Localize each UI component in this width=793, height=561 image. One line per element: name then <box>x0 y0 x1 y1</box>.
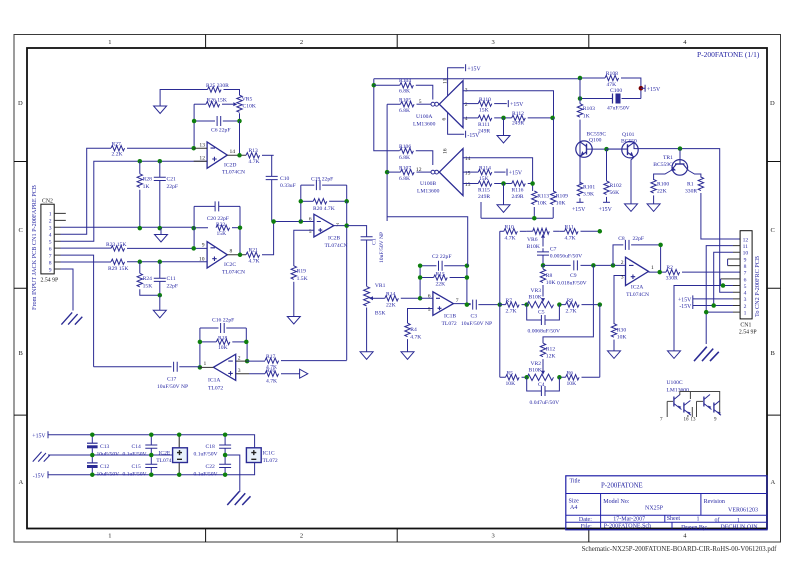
svg-text:Title: Title <box>570 479 581 485</box>
resistor R110 <box>463 97 507 114</box>
svg-text:R18: R18 <box>218 336 228 342</box>
junction <box>191 146 196 151</box>
svg-text:C15: C15 <box>132 464 142 470</box>
svg-text:10K: 10K <box>556 201 566 207</box>
svg-text:2: 2 <box>300 39 303 46</box>
resistor R114 <box>463 165 506 182</box>
wire C3 node column to R10 and R5 <box>499 231 501 377</box>
svg-text:10uF/50V NP: 10uF/50V NP <box>461 321 492 327</box>
hatch ground bottom right of power block <box>227 492 250 506</box>
junction <box>591 263 596 268</box>
junction <box>704 310 709 315</box>
resistor R15 <box>420 271 467 287</box>
svg-text:R114: R114 <box>479 165 491 171</box>
svg-text:2.54 9P: 2.54 9P <box>739 329 757 335</box>
capacitor C8 <box>613 236 661 272</box>
svg-text:14: 14 <box>230 149 236 155</box>
op-amp IC2C <box>199 242 245 276</box>
svg-text:+15V: +15V <box>599 207 613 213</box>
svg-text:TL072: TL072 <box>442 321 457 327</box>
wire node Y vertical R105 R107 <box>387 104 400 221</box>
junction <box>90 472 95 477</box>
svg-text:3: 3 <box>49 226 52 232</box>
svg-text:R20 4.7K: R20 4.7K <box>313 206 335 212</box>
junction <box>372 83 377 88</box>
svg-text:B10K: B10K <box>529 367 542 373</box>
svg-text:A: A <box>19 479 24 486</box>
svg-text:6.8K: 6.8K <box>399 176 410 182</box>
svg-text:249R: 249R <box>512 120 524 126</box>
svg-text:6: 6 <box>442 118 448 121</box>
junction <box>237 153 242 158</box>
svg-text:8: 8 <box>49 261 52 267</box>
svg-text:R104: R104 <box>399 78 411 84</box>
transistor Q100 BC559C <box>576 131 607 157</box>
resistor R16 <box>249 368 300 384</box>
svg-text:10K: 10K <box>567 381 577 387</box>
capacitor C100 polarized <box>580 88 641 112</box>
capacitor C2 <box>420 254 467 271</box>
svg-text:4: 4 <box>465 116 468 122</box>
OTA U100A <box>413 78 468 127</box>
svg-text:R109: R109 <box>556 194 568 200</box>
svg-text:5: 5 <box>744 284 747 290</box>
capacitor C15 <box>123 455 158 477</box>
resistor R9 <box>566 298 580 315</box>
svg-text:0.1uF/50V: 0.1uF/50V <box>123 471 147 477</box>
ground below R115 R116 <box>503 184 505 205</box>
svg-text:4.7K: 4.7K <box>410 334 421 340</box>
svg-text:22K: 22K <box>386 302 396 308</box>
svg-text:10uF/50V: 10uF/50V <box>97 451 120 457</box>
svg-text:IC2B: IC2B <box>328 236 340 242</box>
svg-text:22K: 22K <box>657 189 667 195</box>
svg-text:22pF: 22pF <box>167 184 179 190</box>
svg-text:A: A <box>771 479 776 486</box>
svg-text:3: 3 <box>744 297 747 303</box>
hatch ground below CN1 <box>694 347 719 361</box>
svg-text:R4: R4 <box>410 327 417 333</box>
wire CN1 pin1 to hatch ground <box>706 312 733 344</box>
resistor R100 <box>651 179 669 204</box>
svg-text:C22: C22 <box>206 464 216 470</box>
resistor R12 <box>540 343 555 360</box>
svg-text:R24: R24 <box>143 276 153 282</box>
svg-text:330R: 330R <box>666 276 678 282</box>
svg-text:R15: R15 <box>436 271 446 277</box>
svg-text:B10K: B10K <box>529 295 542 301</box>
svg-text:R112: R112 <box>512 111 524 117</box>
capacitor C6 <box>194 116 239 134</box>
svg-text:R14: R14 <box>386 292 396 298</box>
svg-text:1K: 1K <box>143 184 150 190</box>
svg-text:4.7K: 4.7K <box>565 235 576 241</box>
resistor R7 <box>506 298 520 315</box>
wire CN2 pin4 up to R27 <box>61 148 112 234</box>
svg-text:15K: 15K <box>217 231 227 237</box>
wire CN1 pin10 column to -15V net <box>714 252 733 305</box>
svg-text:6: 6 <box>428 293 431 299</box>
svg-text:VR3: VR3 <box>531 288 542 294</box>
resistor R26 <box>194 98 233 107</box>
svg-text:10K: 10K <box>546 280 556 286</box>
svg-text:+15V: +15V <box>678 297 692 303</box>
capacitor C17 <box>94 362 200 390</box>
wire Q100 base to Q101 base <box>604 147 609 152</box>
svg-text:6: 6 <box>744 277 747 283</box>
svg-text:A4: A4 <box>570 505 577 511</box>
svg-text:+15V: +15V <box>572 207 586 213</box>
svg-text:+15V: +15V <box>467 66 481 72</box>
junction <box>550 116 555 121</box>
svg-text:R13: R13 <box>249 148 259 154</box>
svg-text:2: 2 <box>465 102 468 108</box>
svg-text:12: 12 <box>416 167 422 173</box>
svg-text:R100: R100 <box>657 182 669 188</box>
svg-text:TL072: TL072 <box>263 458 278 464</box>
resistor R4 <box>405 323 422 352</box>
power +15V to CN1 pin3 <box>678 295 733 303</box>
resistor R14 <box>373 292 420 309</box>
svg-text:7: 7 <box>744 271 747 277</box>
svg-text:R28: R28 <box>143 177 153 183</box>
ground below R4 <box>401 352 414 360</box>
wire CN2 pin9 to ground <box>61 269 74 311</box>
wire CN2 pin5 up to IC2D pin12 line <box>61 161 208 241</box>
wire IC2A minus line through C9 <box>543 264 626 266</box>
resistor R109 <box>551 118 569 218</box>
svg-text:BC550: BC550 <box>621 139 637 145</box>
op-amp power box IC1C <box>246 448 278 464</box>
wire R1 to CN1 pin12 <box>701 193 740 239</box>
svg-text:2: 2 <box>744 304 747 310</box>
svg-text:2: 2 <box>238 355 241 361</box>
ground below R100 <box>647 204 660 212</box>
wire CN2 pin7 to C17 <box>61 255 94 367</box>
resistor R101 <box>577 182 595 202</box>
wire node Y to IC1B output <box>387 217 468 266</box>
svg-text:2: 2 <box>49 219 52 225</box>
svg-text:C1: C1 <box>372 238 378 245</box>
svg-text:16: 16 <box>684 418 690 423</box>
svg-text:8: 8 <box>744 264 747 270</box>
svg-text:4.7K: 4.7K <box>249 258 260 264</box>
resistor R28 <box>137 161 152 228</box>
svg-text:14: 14 <box>465 156 471 162</box>
capacitor C21 <box>154 161 178 228</box>
resistor R104 <box>374 78 433 100</box>
svg-text:4: 4 <box>744 291 747 297</box>
svg-text:R113: R113 <box>537 194 549 200</box>
junction <box>90 453 95 458</box>
svg-text:CN1: CN1 <box>740 322 751 328</box>
op-amp IC2A <box>614 257 654 324</box>
svg-text:TL074CN: TL074CN <box>626 292 649 298</box>
rail junction dots <box>90 432 95 437</box>
resistor R18 <box>200 336 246 351</box>
resistor R115 <box>463 181 512 200</box>
svg-text:0.0056uF/50V: 0.0056uF/50V <box>550 254 582 260</box>
junction <box>501 116 506 121</box>
svg-text:IC1A: IC1A <box>208 377 220 383</box>
svg-text:+15V: +15V <box>647 87 661 93</box>
junction <box>192 119 197 124</box>
svg-text:R27: R27 <box>112 141 122 147</box>
svg-text:47uF/50V: 47uF/50V <box>607 106 630 112</box>
wire U100B pin14 to R113 column <box>463 158 533 191</box>
svg-text:4.7K: 4.7K <box>505 235 516 241</box>
svg-text:B: B <box>771 350 776 357</box>
svg-text:Drawn By:: Drawn By: <box>681 525 708 531</box>
svg-text:10: 10 <box>199 256 205 262</box>
svg-text:22K: 22K <box>436 281 446 287</box>
svg-text:0.1uF/50V: 0.1uF/50V <box>123 451 147 457</box>
svg-text:C6 22pF: C6 22pF <box>211 128 230 134</box>
svg-text:Date:: Date: <box>579 517 592 523</box>
svg-text:R7: R7 <box>506 298 513 304</box>
svg-text:R103: R103 <box>583 106 595 112</box>
wire mid chain row R7 VR3 R9 <box>500 304 600 306</box>
power +15V below R102 <box>599 202 613 213</box>
wire CN1 pin9 pin8 jumper <box>727 259 729 266</box>
op-amp IC2B <box>309 214 348 249</box>
svg-text:C2 22pF: C2 22pF <box>432 254 451 260</box>
svg-text:10uF/50V NP: 10uF/50V NP <box>157 384 188 390</box>
svg-text:TL074CN: TL074CN <box>325 243 348 249</box>
svg-text:Q101: Q101 <box>622 132 635 138</box>
svg-text:10uF/50V: 10uF/50V <box>97 471 120 477</box>
junction <box>598 229 603 234</box>
resistor R105 <box>399 97 431 114</box>
resistor R106 <box>399 144 433 165</box>
svg-text:7: 7 <box>49 254 52 260</box>
junction <box>501 181 506 186</box>
svg-text:1: 1 <box>49 212 52 218</box>
resistor R116 <box>512 181 534 200</box>
op-amp IC1A points left <box>200 354 249 391</box>
svg-text:IC2A: IC2A <box>631 284 643 290</box>
svg-text:C12: C12 <box>100 464 110 470</box>
svg-text:10K: 10K <box>218 345 228 351</box>
power +15V at R114 <box>507 169 523 177</box>
svg-text:6: 6 <box>309 217 312 223</box>
spare OTA cell U100C <box>660 380 721 422</box>
capacitor C5 bridge under VR3 <box>527 305 560 335</box>
svg-text:C3: C3 <box>471 313 478 319</box>
power -15V to CN1 pin2 <box>679 302 733 310</box>
junction <box>198 340 203 345</box>
resistor R11 <box>559 225 600 242</box>
svg-text:TL074: TL074 <box>156 458 171 464</box>
resistor R27 <box>111 141 194 157</box>
svg-text:R29 15K: R29 15K <box>108 266 128 272</box>
svg-text:12: 12 <box>743 237 749 243</box>
wire R12 top link <box>543 265 593 343</box>
capacitor C9 <box>557 260 587 286</box>
svg-text:P-200FATONE (1/1): P-200FATONE (1/1) <box>697 50 760 59</box>
junction <box>418 296 423 301</box>
wire R25 left leg <box>160 90 207 107</box>
svg-text:Q100: Q100 <box>589 137 602 143</box>
junction <box>524 302 529 307</box>
svg-text:R9: R9 <box>567 298 574 304</box>
svg-text:5: 5 <box>49 240 52 246</box>
svg-text:TL074CN: TL074CN <box>222 269 245 275</box>
svg-text:TL074CN: TL074CN <box>222 170 245 176</box>
svg-text:From INPUT JACK PCB CN1 P-200F: From INPUT JACK PCB CN1 P-200FAPRE PCB <box>31 185 38 310</box>
svg-text:R101: R101 <box>583 185 595 191</box>
junction <box>238 225 243 230</box>
svg-text:C7: C7 <box>550 247 557 253</box>
connector CN1 <box>721 231 757 336</box>
svg-text:4: 4 <box>683 533 687 540</box>
svg-text:-15V: -15V <box>679 304 692 310</box>
svg-text:R107: R107 <box>399 165 411 171</box>
power -15V below U100A <box>466 131 481 139</box>
svg-text:3: 3 <box>492 533 495 540</box>
wire CN2 pin3 summing row <box>61 226 209 228</box>
resistor R17 <box>247 354 347 371</box>
svg-text:C14: C14 <box>132 444 142 450</box>
svg-text:0.0068uF/50V: 0.0068uF/50V <box>528 328 560 334</box>
svg-text:IC1C: IC1C <box>263 451 275 457</box>
svg-text:Revision: Revision <box>704 499 725 505</box>
svg-text:D: D <box>18 100 23 107</box>
svg-text:R106: R106 <box>399 144 411 150</box>
svg-text:VER061203: VER061203 <box>728 508 758 514</box>
svg-text:22pF: 22pF <box>167 283 179 289</box>
power +15V above U100A <box>466 64 482 72</box>
svg-text:Sheet: Sheet <box>667 516 681 522</box>
svg-text:2.7K: 2.7K <box>506 308 517 314</box>
svg-text:IC2D: IC2D <box>224 162 236 168</box>
svg-text:of: of <box>715 517 720 524</box>
svg-text:22pF: 22pF <box>633 236 645 242</box>
resistor R30 <box>611 324 626 351</box>
svg-text:4: 4 <box>49 233 52 239</box>
resistor R2 <box>666 265 741 282</box>
svg-text:R111: R111 <box>478 122 490 128</box>
junction <box>271 219 276 224</box>
svg-text:U100C: U100C <box>667 380 683 386</box>
resistor R112 <box>512 111 554 126</box>
svg-text:C20 22pF: C20 22pF <box>207 216 229 222</box>
svg-text:0.33uF: 0.33uF <box>280 183 296 189</box>
svg-text:R110: R110 <box>479 97 491 103</box>
svg-text:R17: R17 <box>266 354 276 360</box>
capacitor C20 <box>194 201 240 222</box>
svg-text:VR1: VR1 <box>375 283 386 289</box>
svg-text:C18: C18 <box>206 444 216 450</box>
resistor R21 <box>246 222 274 265</box>
svg-text:R108: R108 <box>606 71 618 77</box>
junction <box>344 223 349 228</box>
svg-text:BC559C: BC559C <box>653 162 673 168</box>
resistor R113 <box>532 191 550 218</box>
resistor R6 <box>566 371 580 388</box>
wire IC2C output node <box>227 254 246 256</box>
svg-text:13: 13 <box>691 418 697 423</box>
svg-text:P-200FATONE: P-200FATONE <box>601 483 643 490</box>
svg-text:3: 3 <box>238 368 241 374</box>
ground below VR1 <box>360 352 373 360</box>
capacitor C13 polarized <box>87 435 119 458</box>
svg-text:10K: 10K <box>537 201 547 207</box>
svg-text:11: 11 <box>743 244 749 250</box>
svg-text:CN2: CN2 <box>42 199 53 205</box>
svg-text:+15V: +15V <box>32 433 46 439</box>
svg-text:C19 22pF: C19 22pF <box>311 177 333 183</box>
ground below R111 R112 <box>503 118 505 136</box>
svg-text:3.9K: 3.9K <box>583 191 594 197</box>
resistor R108 <box>580 71 641 98</box>
junction <box>711 303 716 308</box>
svg-text:TR1: TR1 <box>663 155 673 161</box>
svg-text:R115: R115 <box>478 188 490 194</box>
svg-text:R16: R16 <box>266 368 276 374</box>
svg-text:16: 16 <box>443 148 449 154</box>
wire IC1A feedback box verticals <box>200 328 247 367</box>
wire Q101 collector to CN1 pin4 column <box>680 149 733 293</box>
resistor R107 <box>387 165 431 182</box>
junction <box>418 263 423 268</box>
power +15V below R101 <box>572 202 586 213</box>
svg-text:10K: 10K <box>617 335 627 341</box>
resistor R8 <box>540 265 555 296</box>
power +15V at R110 <box>508 100 524 108</box>
junction <box>658 243 663 248</box>
wire IC2D feedback left vertical <box>193 104 195 148</box>
svg-text:2.2K: 2.2K <box>112 151 123 157</box>
svg-text:6: 6 <box>49 247 52 253</box>
svg-text:249R: 249R <box>478 128 490 134</box>
hatch ground below CN2 pin9 <box>61 312 82 324</box>
wire top rail <box>92 435 254 448</box>
svg-text:15K: 15K <box>143 283 153 289</box>
junction <box>678 146 683 151</box>
svg-text:LM13600: LM13600 <box>667 388 690 394</box>
wire CN1 pin11 column <box>706 246 733 313</box>
svg-text:R26 15K: R26 15K <box>207 98 227 104</box>
svg-text:10: 10 <box>743 251 749 257</box>
svg-text:1: 1 <box>651 265 654 271</box>
svg-text:+15V: +15V <box>510 102 524 108</box>
wire CN1 pin6 pin5 jumper and output to arrow <box>674 279 733 351</box>
svg-text:Size: Size <box>569 499 580 505</box>
svg-text:10K: 10K <box>506 381 516 387</box>
OTA U100B <box>416 148 471 195</box>
transistor Q101 BC550 <box>607 132 681 204</box>
capacitor C22 <box>194 455 232 477</box>
svg-text:R5: R5 <box>507 371 514 377</box>
svg-text:R102: R102 <box>610 183 622 189</box>
power rail -15V label left <box>33 471 93 479</box>
svg-text:R25 330R: R25 330R <box>206 83 229 89</box>
svg-text:R19: R19 <box>297 268 307 274</box>
svg-text:0.047uF/50V: 0.047uF/50V <box>530 400 560 406</box>
wire IC2C feedback verticals <box>194 206 240 254</box>
junction <box>721 283 726 288</box>
wire IC2B feedback verticals <box>301 185 347 221</box>
svg-text:R6: R6 <box>567 371 574 377</box>
svg-text:56K: 56K <box>610 190 620 196</box>
svg-text:7: 7 <box>456 298 459 304</box>
resistor R111 <box>463 115 512 134</box>
potentiometer VR1 <box>364 283 386 352</box>
svg-text:R23 15K: R23 15K <box>106 242 126 248</box>
resistor R19 <box>291 266 308 317</box>
svg-text:-15V: -15V <box>33 473 46 479</box>
